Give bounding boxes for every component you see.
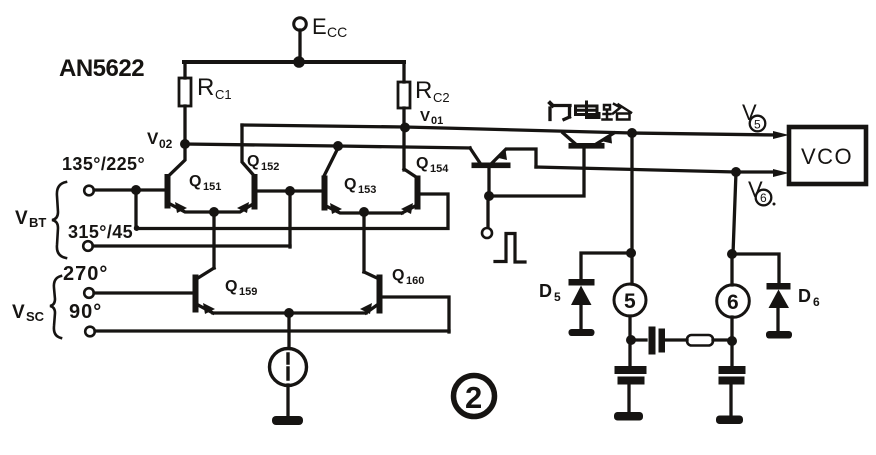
resonator box <box>687 335 713 346</box>
svg-text:5: 5 <box>554 290 561 304</box>
diode D6 <box>767 284 790 290</box>
gate transistor left <box>472 163 510 168</box>
label D5 <box>539 281 561 304</box>
ground bottom left <box>614 412 643 421</box>
svg-text:5: 5 <box>624 290 636 313</box>
label 270 <box>63 263 108 285</box>
label Q154 <box>416 155 449 175</box>
wire Q151 base input line 135/225 <box>94 188 165 191</box>
wire Q159-Q160 common emitter <box>213 311 366 314</box>
ground under D6 <box>766 331 792 339</box>
label Ecc <box>312 14 347 40</box>
label VSC <box>12 302 45 324</box>
terminal 135/225 <box>84 186 94 196</box>
transistor Q154 <box>404 169 416 177</box>
label Q159 <box>225 278 257 298</box>
pulse waveform symbol <box>495 234 525 263</box>
node V01 <box>400 123 410 133</box>
wire gate left base down <box>487 168 490 197</box>
node 135/225 junction <box>131 185 141 195</box>
label 90 <box>69 301 102 323</box>
brace VBT <box>52 182 66 258</box>
label V02 <box>147 129 173 151</box>
wire Q159 base 270 line <box>94 291 193 294</box>
label V5 <box>742 100 757 125</box>
pin 6 circle <box>717 285 750 318</box>
node tail junction <box>284 308 294 318</box>
wire D6 jog <box>732 254 779 283</box>
svg-text:R: R <box>415 77 432 104</box>
label 315/45 <box>68 222 141 242</box>
capacitor plates (series) <box>649 327 655 354</box>
label Q151 <box>189 173 221 193</box>
svg-text:Q: Q <box>247 153 259 170</box>
capacitor C bottom right <box>719 367 745 374</box>
wire to Q154 base lower run <box>136 190 448 229</box>
svg-text:151: 151 <box>203 181 221 193</box>
svg-text:270°: 270° <box>63 263 108 285</box>
arrow into VCO input 1 <box>773 131 789 139</box>
transistor Q152 <box>242 125 253 175</box>
diode D5 <box>569 280 594 286</box>
label Q153 <box>344 176 376 196</box>
ground bottom right <box>716 416 743 425</box>
svg-text:D: D <box>798 286 811 306</box>
wire pulse terminal stub <box>486 196 489 227</box>
svg-text:159: 159 <box>239 286 257 298</box>
svg-text:SC: SC <box>26 309 45 324</box>
svg-text:2: 2 <box>465 380 482 415</box>
wire to resonator <box>631 338 646 341</box>
wire D5 jog <box>581 253 631 280</box>
svg-text:V: V <box>147 129 159 148</box>
label AN5622 <box>59 55 144 82</box>
brace VSC <box>50 276 61 338</box>
gate circuit label (Chinese: men dian lu) <box>550 102 631 120</box>
svg-text:V: V <box>15 208 28 229</box>
wire VCO line 2 <box>536 167 775 172</box>
svg-text:C1: C1 <box>215 87 232 102</box>
pin 5 circle <box>614 284 646 316</box>
label Q152 <box>247 153 279 173</box>
svg-text:BT: BT <box>29 215 46 230</box>
wire 315/45 line <box>93 244 290 247</box>
resistor RC1 <box>183 62 186 78</box>
node V6 junction <box>731 167 741 177</box>
wire pin5 bottom cap <box>628 340 631 367</box>
label 135/225 <box>62 154 145 174</box>
arrow into VCO input 2 <box>773 169 789 177</box>
node V5 junction <box>627 128 637 138</box>
wire Ecc stub <box>298 30 301 62</box>
node Q153-Q154 common emitter <box>359 207 369 217</box>
svg-text:C2: C2 <box>433 90 450 105</box>
svg-text:Q: Q <box>416 155 428 172</box>
svg-text:6: 6 <box>760 191 767 205</box>
gate transistor right <box>569 144 604 149</box>
svg-text:154: 154 <box>430 163 449 175</box>
node pin5 lower <box>626 335 636 345</box>
node gate base junction <box>484 191 494 201</box>
wire supply rail Ecc <box>184 60 404 64</box>
wire Q152-Q153 base tie <box>257 189 322 192</box>
svg-text:Q: Q <box>392 267 404 284</box>
transistor Q151 <box>170 144 185 175</box>
svg-text:152: 152 <box>261 161 279 173</box>
svg-text:R: R <box>197 74 214 101</box>
wire base tie to right transistor <box>489 148 584 196</box>
svg-text:CC: CC <box>327 24 347 40</box>
svg-text:135°/225°: 135°/225° <box>62 154 145 174</box>
svg-text:E: E <box>312 14 327 39</box>
svg-text:6: 6 <box>813 295 820 309</box>
node Q153 collector junction <box>333 141 343 151</box>
svg-text:160: 160 <box>406 275 424 287</box>
svg-text:315°/45°: 315°/45° <box>68 222 141 242</box>
svg-text:6: 6 <box>727 291 739 314</box>
node pin5 upper <box>626 248 636 258</box>
figure number 2 <box>454 376 495 417</box>
svg-text:Q: Q <box>225 278 237 295</box>
label V6 <box>748 177 763 202</box>
node base tie <box>285 186 295 196</box>
VCO box <box>789 127 866 184</box>
node Q151-Q152 common emitter <box>209 207 219 217</box>
wire pin5 vertical <box>630 133 632 340</box>
terminal 270 <box>84 288 94 298</box>
label RC1 <box>197 74 232 102</box>
transistor Q159 <box>198 268 214 278</box>
label RC2 <box>415 77 450 105</box>
label D6 <box>798 286 820 309</box>
transistor Q160 <box>364 272 377 278</box>
svg-text:V: V <box>420 108 430 125</box>
wire Q160 base run to 90 line <box>382 297 449 332</box>
ground under current source <box>272 416 303 425</box>
svg-text:Q: Q <box>189 173 201 190</box>
terminal 315/45 <box>83 241 93 251</box>
svg-text:90°: 90° <box>69 301 102 323</box>
node pin6 upper <box>727 249 737 259</box>
label Q160 <box>392 267 424 287</box>
svg-text:01: 01 <box>431 115 443 127</box>
svg-text:AN5622: AN5622 <box>59 55 144 82</box>
node V02 <box>180 139 190 149</box>
svg-text:D: D <box>539 281 552 301</box>
node pin6 lower <box>727 336 737 346</box>
terminal 90 <box>85 327 95 337</box>
svg-text:Q: Q <box>344 176 356 193</box>
label VBT <box>15 208 46 230</box>
label V01 <box>420 108 443 127</box>
capacitor C bottom left <box>615 367 646 374</box>
svg-text:5: 5 <box>754 118 761 132</box>
svg-text:153: 153 <box>358 184 376 196</box>
svg-text:02: 02 <box>159 137 173 151</box>
terminal Ecc <box>294 18 307 31</box>
terminal pulse input <box>482 228 492 238</box>
svg-text:VCO: VCO <box>801 144 853 169</box>
transistor Q153 <box>324 148 338 176</box>
wire V02 line <box>185 144 470 148</box>
ground under D5 <box>569 329 595 336</box>
wire V01 line <box>242 125 776 135</box>
wire common emitter down to Q160 <box>362 212 365 272</box>
wire 90 line <box>95 329 449 332</box>
current source I1 <box>287 313 290 348</box>
wire common emitter down <box>212 212 215 268</box>
wire base tie down to 315/45 <box>288 191 291 247</box>
node Ecc junction <box>293 56 305 68</box>
svg-text:V: V <box>12 302 25 323</box>
wire pin6 bottom cap <box>730 341 733 367</box>
resistor RC2 <box>402 62 405 82</box>
wire pin6 vertical <box>732 172 736 341</box>
